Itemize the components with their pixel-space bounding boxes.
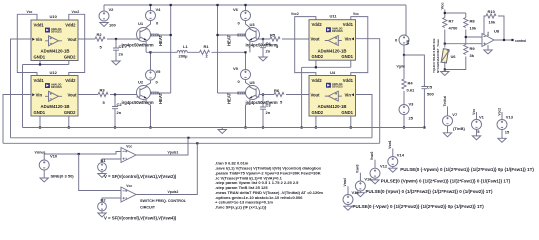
svg-text:.func SF(x,y,z) {IF (x<1,y,z)}: .func SF(x,y,z) {IF (x<1,y,z)} (215, 205, 267, 210)
svg-text:200µ: 200µ (179, 54, 189, 59)
svg-text:V9: V9 (233, 66, 239, 71)
svg-text:10k: 10k (489, 20, 496, 25)
junction U12 gnd bus (39, 126, 41, 128)
junction C1 tap (115, 38, 117, 40)
buffer symbol U10 (45, 36, 62, 46)
svg-text:Vin: Vin (36, 93, 43, 98)
thermistor U6 NTC (441, 49, 456, 63)
resistor R2 (95, 32, 105, 50)
resistor R1 (200, 44, 210, 58)
junction R8 node (465, 36, 467, 38)
svg-text:U2: U2 (138, 80, 144, 85)
voltage source V13 (497, 108, 514, 135)
voltage source V4 (146, 7, 162, 26)
capacitor C2 (112, 95, 122, 128)
junction U1 heat (170, 34, 172, 36)
svg-text:HEAT: HEAT (158, 34, 163, 46)
svg-text:ADuM4120-1B: ADuM4120-1B (41, 49, 70, 54)
wire Vpuls2 bus3 (3, 142, 380, 144)
junction U2 emitter bus (149, 126, 151, 128)
wire ground bus1 (23, 127, 425, 129)
svg-text:Vcc: Vcc (126, 184, 132, 188)
wire Vpuls1 bus2 (11, 137, 373, 139)
wire U1 heat to rail (158, 34, 170, 36)
junction bus2 comparator feed (187, 137, 189, 139)
wire U3 gate row (260, 38, 310, 40)
heat pin U2 (151, 92, 159, 94)
spice directives (215, 161, 323, 210)
svg-text:Vout: Vout (311, 93, 321, 98)
svg-text:Vdd1: Vdd1 (34, 78, 45, 83)
ground V10 (40, 170, 48, 182)
svg-text:R2: R2 (97, 32, 103, 37)
svg-text:{TinB}: {TinB} (453, 126, 465, 131)
wire V9 to U5 collector (246, 80, 250, 86)
logo U11 (326, 27, 343, 33)
ground NTC (441, 70, 449, 76)
ground C4 (259, 57, 267, 61)
junction thermal rail left on DC rail (170, 4, 172, 6)
svg-text:U4: U4 (330, 70, 336, 75)
svg-text:GND1: GND1 (341, 110, 353, 115)
wire U10 gnd row (23, 61, 69, 128)
svg-text:Vcc2: Vcc2 (498, 108, 502, 116)
transistor U1 IGBT (122, 21, 154, 47)
junction load left (149, 51, 151, 53)
svg-text:ADuM4120-1B: ADuM4120-1B (318, 48, 347, 53)
wire NTC top (444, 44, 446, 48)
junction C2 bus (114, 126, 116, 128)
voltage source V7 (443, 96, 466, 131)
junction C5 bus (423, 126, 425, 128)
svg-text:Vdd1: Vdd1 (343, 22, 354, 27)
wire U2 emitter to bus (146, 100, 150, 128)
svg-text:Vout: Vout (68, 93, 78, 98)
svg-text:Vout: Vout (68, 37, 78, 42)
svg-text:2n: 2n (119, 52, 124, 57)
svg-text:4700: 4700 (449, 26, 459, 31)
svg-text:PULSE(0 {-Vpwm} 0 {1/(2*Fsw1)}: PULSE(0 {-Vpwm} 0 {1/(2*Fsw1)} {1/(2*Fsw… (400, 167, 534, 172)
svg-text:Vdd2: Vdd2 (65, 78, 76, 83)
voltage source V10 (39, 153, 74, 178)
transistor U3 IGBT (246, 22, 278, 47)
junction U11 gnd bus (301, 126, 303, 128)
voltage source V9 (233, 66, 251, 84)
svg-text:V12: V12 (380, 164, 388, 169)
junction U5 emitter bus (244, 126, 246, 128)
svg-text:R3: R3 (100, 88, 106, 93)
capacitor C5 (421, 85, 434, 128)
wire Vcc rail left (17, 14, 37, 75)
junction Vgrid (403, 54, 405, 56)
svg-text:Vdd1: Vdd1 (34, 23, 45, 28)
voltage source V3 (399, 102, 414, 121)
svg-text:3k: 3k (470, 53, 475, 58)
wire V3 to bus (403, 115, 405, 128)
junction U4 gnd bus (315, 126, 317, 128)
IC U11 gate driver box (309, 14, 356, 61)
svg-text:V5: V5 (156, 69, 162, 74)
wire U10 VIn (11, 39, 32, 138)
ground V14 (389, 167, 397, 173)
svg-text:CIRCUIT: CIRCUIT (140, 206, 156, 210)
wire Vgrid down to R4 (403, 55, 405, 79)
wire Vcc to divider (445, 10, 466, 18)
svg-text:C5: C5 (427, 85, 433, 90)
svg-text:V8: V8 (405, 39, 410, 45)
ground B2 (98, 211, 106, 217)
svg-text:R7: R7 (449, 19, 455, 24)
svg-text:Vsw3: Vsw3 (356, 164, 360, 173)
junction control (503, 39, 505, 41)
wire R4 to V3 (403, 91, 405, 105)
resistor R7 (443, 18, 458, 31)
comparator A1 (121, 144, 136, 162)
wire U5 heat to rail (218, 91, 238, 94)
svg-text:U3: U3 (250, 22, 256, 27)
svg-text:R10: R10 (488, 9, 496, 14)
svg-text:2n: 2n (266, 49, 271, 54)
svg-text:Vdd2: Vdd2 (312, 22, 323, 27)
svg-text:SINE(0 3 50): SINE(0 3 50) (51, 173, 75, 178)
svg-text:PULSE(0 {Vpwm} 0 {1/(2*Fsw1)}: PULSE(0 {Vpwm} 0 {1/(2*Fsw1)} {1/(2*Fsw1… (381, 179, 511, 184)
wire U3 heat to rail (218, 34, 238, 36)
buffer symbol U4 (mirrored) (325, 91, 342, 101)
junction U11 gnd (315, 66, 317, 68)
wire Vcc2 rail left (69, 14, 85, 75)
junction V4 rail (149, 4, 151, 6)
wire V5 to U2 collector (146, 80, 150, 86)
svg-text:2n: 2n (266, 110, 271, 115)
heat pin U3 (238, 34, 246, 36)
svg-text:GND2: GND2 (64, 110, 76, 115)
svg-text:PULSE(0 {-Vpwr} 0 {1/(2*Fsw2)}: PULSE(0 {-Vpwr} 0 {1/(2*Fsw2)} {1/(2*Fsw… (353, 204, 485, 209)
ground V1 (472, 129, 480, 140)
svg-text:V = SF(V(control),V(Vsw3),V(Vs: V = SF(V(control),V(Vsw3),V(Vsw4)) (104, 215, 177, 220)
heat pin U5 (238, 92, 246, 94)
svg-text:500: 500 (427, 92, 434, 97)
capacitor C4 (260, 39, 271, 57)
op-amp U8 (482, 29, 500, 47)
IC U10 gate driver box (31, 14, 78, 61)
svg-text:ADuM4120-1B: ADuM4120-1B (41, 104, 70, 109)
resistor R9 (464, 45, 476, 59)
buffer symbol U12 (45, 91, 62, 101)
wire comparator2 output to bus3 (136, 143, 197, 194)
junction load right (244, 51, 246, 53)
junction C3 bus (262, 126, 264, 128)
wire Vcc2 rail right (295, 17, 316, 76)
svg-text:2n: 2n (117, 110, 122, 115)
svg-text:Vcc: Vcc (440, 2, 445, 10)
svg-text:Vcc: Vcc (126, 144, 132, 148)
svg-text:PULSE(0 {Vpwr} 0 {1/(2*Fsw2)}: PULSE(0 {Vpwr} 0 {1/(2*Fsw2)} {1/(2*Fsw2… (366, 189, 494, 194)
resistor R10 feedback (486, 9, 496, 25)
resistor R3 (98, 88, 108, 106)
wire V6 to U3 collector (246, 21, 250, 28)
voltage source V2 (99, 7, 116, 28)
svg-text:R6: R6 (274, 88, 280, 93)
svg-text:R9: R9 (470, 46, 476, 51)
wire comparator1 output to bus2 (136, 138, 188, 155)
svg-text:Vcc: Vcc (353, 12, 359, 16)
junction C3 tap (262, 93, 264, 95)
svg-text:HEAT: HEAT (227, 92, 232, 104)
voltage source V14 (388, 140, 405, 166)
ground V12 (371, 178, 379, 184)
wire B1 to comparator1 plus (102, 159, 121, 163)
wire Vsinus row (44, 152, 121, 155)
wire R1 to right leg (212, 52, 246, 69)
svg-text:10k: 10k (470, 26, 477, 31)
junction Vsinus branch (78, 153, 80, 155)
ground V13 (498, 130, 506, 143)
wire V4 to U1 collector (146, 21, 150, 28)
voltage source V8 (395, 35, 410, 45)
svg-text:GND2: GND2 (312, 110, 324, 115)
svg-text:100: 100 (109, 23, 116, 28)
behavioral source B2 (98, 197, 107, 211)
wire top DC rail (104, 4, 406, 6)
svg-text:V13: V13 (506, 115, 514, 120)
capacitor C3 (260, 95, 271, 128)
wire L1 to R1 (151, 51, 200, 53)
svg-text:NTCG204A4372KT_Tcase: NTCG204A4372KT_Tcase (436, 39, 440, 73)
svg-text:U12: U12 (50, 70, 58, 75)
svg-text:control: control (515, 39, 526, 43)
svg-text:25: 25 (409, 116, 414, 121)
svg-text:U1: U1 (138, 21, 144, 26)
junction divider top (444, 12, 446, 14)
voltage source V6 (233, 7, 251, 26)
wire U2 heat to rail (158, 91, 170, 94)
behavioral source B1 (98, 158, 107, 172)
svg-text:V3: V3 (409, 102, 415, 107)
wire top rail to V8 (404, 5, 406, 35)
junction NTC gnd (444, 68, 446, 70)
wire U11 gnd row (302, 60, 351, 127)
svg-text:HEAT: HEAT (158, 92, 163, 104)
svg-text:Vcc: Vcc (27, 10, 33, 14)
voltage source V1 (472, 109, 485, 134)
svg-text:U8: U8 (494, 29, 500, 34)
capacitor C1 (113, 39, 124, 61)
wire Vcc rail right (351, 17, 368, 76)
wire U8 output (494, 39, 513, 41)
svg-text:GND2: GND2 (312, 54, 324, 59)
junction bus3 comparator feed (196, 142, 198, 144)
junction C2 tap (114, 93, 116, 95)
wire thermal rail right leg (217, 5, 219, 91)
svg-text:V15: V15 (352, 190, 360, 195)
comparator A2 (121, 184, 136, 202)
IC U12 gate driver box (31, 70, 78, 116)
junction V6 rail (244, 4, 246, 6)
svg-text:15: 15 (505, 129, 510, 134)
resistor R5 (270, 33, 280, 50)
wire V8 to Vgrid node (403, 45, 405, 55)
transistor U5 IGBT (246, 80, 278, 105)
svg-text:Vdd2: Vdd2 (65, 23, 76, 28)
svg-text:C4: C4 (266, 41, 272, 46)
svg-text:GND2: GND2 (64, 55, 76, 60)
svg-text:V16: V16 (364, 177, 372, 182)
wire U12 Vout to gate (78, 94, 137, 96)
wire U10 Vout to gate (78, 38, 137, 40)
svg-text:R8: R8 (470, 19, 476, 24)
svg-text:ADuM4120-1B: ADuM4120-1B (318, 104, 347, 109)
wire U1 emitter down (146, 42, 150, 71)
svg-text:SWITCH FREQ. CONTROL: SWITCH FREQ. CONTROL (140, 199, 187, 203)
wire feedback loop (484, 16, 504, 40)
wire V4 top (150, 5, 152, 11)
svg-text:V6: V6 (233, 7, 239, 12)
svg-text:V1: V1 (479, 115, 485, 120)
wire U12 VIn (3, 95, 31, 144)
svg-text:irg4pc50wtherm: irg4pc50wtherm (122, 42, 154, 47)
resistor R6 (274, 88, 284, 105)
ground V7 (443, 126, 451, 137)
wire Vgrid to C5 (404, 55, 424, 87)
junction C4 tap (262, 38, 264, 40)
logo U10 (45, 28, 62, 34)
svg-text:GND1: GND1 (34, 55, 46, 60)
voltage source V5 (146, 69, 162, 85)
svg-text:Vsw2: Vsw2 (370, 152, 374, 161)
ground V16 (356, 191, 364, 197)
svg-text:V7: V7 (452, 112, 458, 117)
wire NTC bottom to R9 bottom (445, 57, 466, 70)
svg-text:Vsinus: Vsinus (35, 150, 46, 154)
wire U12 GND pins to bus (40, 116, 69, 128)
IC U4 gate driver box (309, 70, 356, 116)
svg-text:R5: R5 (270, 33, 276, 38)
svg-text:Vdd1: Vdd1 (343, 78, 354, 83)
wire thermal rail left leg (170, 5, 172, 91)
voltage source V15 (343, 178, 359, 205)
voltage source V16 (355, 164, 372, 191)
svg-text:0.61: 0.61 (407, 88, 416, 93)
wire U5 emitter to bus (246, 100, 250, 128)
wire B2 to comparator2 plus (102, 198, 121, 202)
wire U5 gate row (260, 94, 310, 96)
svg-text:V14: V14 (397, 153, 405, 158)
svg-text:Vsw4: Vsw4 (343, 178, 347, 187)
svg-text:R1: R1 (204, 44, 210, 49)
wire V6 top (245, 5, 247, 11)
junction R7 node (444, 43, 446, 45)
wire R8 bottom to minus input (466, 30, 482, 45)
svg-text:Vcc2: Vcc2 (72, 10, 80, 14)
svg-text:R4: R4 (408, 81, 414, 86)
junction U3 heat (216, 34, 218, 36)
label control circuit title (140, 199, 187, 210)
svg-text:Vpuls1: Vpuls1 (168, 151, 179, 155)
resistor R8 (464, 18, 477, 31)
wire V2 stub (103, 5, 105, 11)
wire U4 GND pins to bus (316, 116, 351, 128)
svg-text:L1: L1 (183, 44, 188, 49)
wire U4 VIn loop (356, 95, 373, 138)
svg-text:Vcc: Vcc (487, 31, 490, 36)
heat pin U1 (151, 34, 159, 36)
buffer symbol U11 (mirrored) (325, 36, 342, 46)
voltage source V12 (370, 152, 388, 179)
transistor U2 IGBT (122, 80, 154, 105)
resistor R4 (402, 79, 415, 93)
logo U12 (45, 83, 62, 89)
wire R7 bottom to plus input (445, 30, 482, 44)
svg-text:U6: U6 (451, 55, 456, 59)
svg-text:GND1: GND1 (34, 110, 46, 115)
svg-text:U10: U10 (50, 14, 58, 19)
ground C1 (112, 61, 120, 65)
svg-text:U11: U11 (330, 14, 338, 19)
svg-text:Vin: Vin (36, 37, 43, 42)
wire U3 emitter down (249, 42, 251, 53)
inductor L1 (173, 44, 191, 58)
svg-text:Vcc2: Vcc2 (291, 12, 299, 16)
svg-text:U5: U5 (250, 80, 256, 85)
wire Vsinus to comparator2 minus (79, 154, 121, 191)
ground B1 (98, 171, 106, 177)
junction V3 bus (403, 126, 405, 128)
svg-text:Vpuls2: Vpuls2 (168, 190, 179, 194)
svg-text:V4: V4 (156, 7, 162, 12)
svg-text:Vsw1: Vsw1 (388, 140, 392, 149)
svg-text:Tinitial: Tinitial (443, 96, 447, 107)
svg-text:HEAT: HEAT (227, 34, 232, 46)
svg-text:GND1: GND1 (341, 54, 353, 59)
logo U4 (326, 83, 343, 89)
ground V15 (344, 205, 352, 211)
svg-text:V = SF(V(control),V(Vsw1),V(Vs: V = SF(V(control),V(Vsw1),V(Vsw2)) (104, 174, 177, 179)
ground under V2 (100, 23, 108, 27)
ground U8 (484, 45, 492, 54)
ground bus1 symbol (218, 128, 226, 134)
svg-text:Vdd2: Vdd2 (312, 78, 323, 83)
svg-text:Vin: Vin (344, 37, 351, 42)
junction thermal rail right on DC rail (216, 4, 218, 6)
svg-text:V2: V2 (109, 7, 115, 12)
wire U11 VIn loop (356, 39, 380, 144)
junction minus feedback (483, 36, 485, 38)
svg-text:Vcc: Vcc (472, 109, 476, 115)
svg-text:C3: C3 (266, 103, 272, 108)
svg-text:Vin: Vin (344, 93, 351, 98)
junction U10 gnd (39, 63, 41, 65)
svg-text:Vout: Vout (311, 37, 321, 42)
